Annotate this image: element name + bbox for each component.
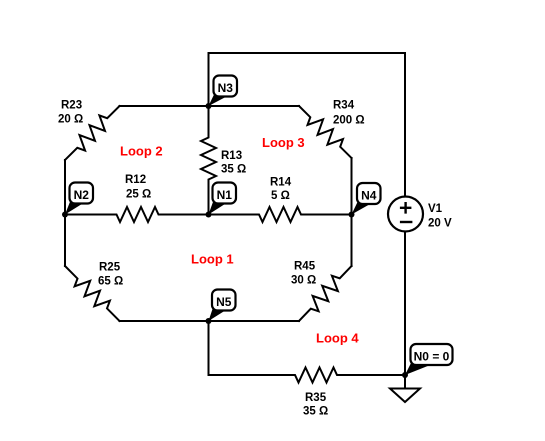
resistor R25 diagonal	[65, 266, 120, 321]
node dot N2	[62, 212, 68, 218]
svg-text:Loop 3: Loop 3	[262, 135, 305, 150]
svg-text:R45: R45	[294, 261, 316, 273]
svg-text:200 Ω: 200 Ω	[333, 115, 365, 127]
node dot N4	[349, 212, 355, 218]
resistor R45 diagonal	[299, 266, 352, 321]
node label N2	[65, 183, 93, 215]
svg-text:N3: N3	[218, 81, 234, 95]
svg-text:Loop 4: Loop 4	[316, 331, 359, 346]
svg-text:N5: N5	[216, 295, 232, 309]
wire center vertical N3 to N1 with R13	[201, 106, 216, 215]
wire top from N3 stem to V1	[209, 53, 406, 197]
wire bottom with R35	[209, 368, 406, 383]
node label N0=0	[405, 344, 453, 375]
svg-text:N4: N4	[361, 189, 377, 203]
resistor R34 diagonal	[299, 106, 352, 158]
svg-text:R34: R34	[333, 100, 355, 112]
node label N3	[209, 76, 238, 107]
svg-text:Loop 1: Loop 1	[191, 252, 234, 267]
svg-text:N1: N1	[217, 188, 233, 202]
node label N5	[209, 290, 236, 322]
wire N3 row horizontal	[120, 105, 300, 107]
wire middle row N2 to N1 with R12	[65, 207, 209, 222]
ground symbol	[390, 389, 420, 403]
node label N1	[209, 183, 237, 215]
wire V1 bottom to ground	[404, 232, 406, 389]
node dot N5	[206, 318, 212, 324]
svg-text:R12: R12	[125, 174, 146, 186]
svg-text:20 V: 20 V	[428, 218, 452, 230]
svg-text:N2: N2	[74, 188, 90, 202]
wire N5 row horizontal	[120, 320, 300, 322]
svg-text:N0 = 0: N0 = 0	[414, 350, 450, 364]
voltage source V1	[388, 197, 423, 232]
svg-text:35 Ω: 35 Ω	[221, 164, 246, 176]
wire right-mid vertical through N4	[351, 158, 353, 266]
svg-text:R13: R13	[221, 150, 242, 162]
svg-text:65 Ω: 65 Ω	[98, 276, 123, 288]
svg-text:5 Ω: 5 Ω	[271, 190, 290, 202]
wire left vertical through N2	[64, 160, 66, 266]
svg-text:R14: R14	[270, 177, 292, 189]
wire middle row N1 to N4 with R14	[209, 207, 352, 222]
svg-text:35 Ω: 35 Ω	[303, 406, 328, 418]
node label N4	[352, 183, 381, 215]
svg-text:R23: R23	[61, 100, 82, 112]
svg-text:R25: R25	[99, 262, 121, 274]
svg-text:20 Ω: 20 Ω	[58, 114, 83, 126]
svg-text:30 Ω: 30 Ω	[291, 275, 316, 287]
node dot N1	[206, 212, 212, 218]
svg-text:25 Ω: 25 Ω	[126, 189, 151, 201]
svg-text:Loop 2: Loop 2	[120, 144, 163, 159]
svg-text:R35: R35	[305, 392, 327, 404]
svg-text:V1: V1	[428, 203, 443, 215]
node dot N0	[402, 372, 408, 378]
wire N5 stem down	[208, 321, 210, 375]
resistor R23 diagonal	[65, 106, 120, 160]
node dot N3	[206, 103, 212, 109]
